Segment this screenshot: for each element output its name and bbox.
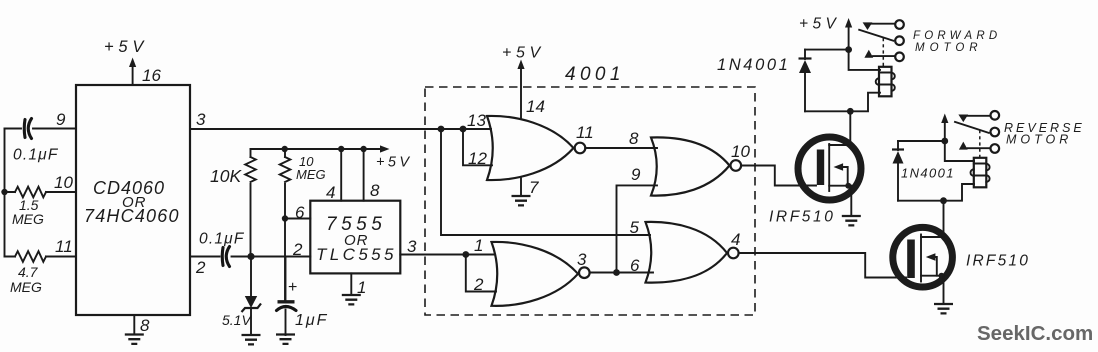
wire U1 pin 3 output (long top wire) <box>190 128 491 130</box>
svg-text:11: 11 <box>576 123 594 142</box>
svg-text:12: 12 <box>468 149 487 168</box>
wire drain node to Q2 <box>943 201 945 237</box>
wire pin 9 branch <box>617 185 658 272</box>
svg-text:1μF: 1μF <box>295 312 328 329</box>
NOR gate U3a <box>487 116 585 180</box>
wire 555 pin 4 <box>340 149 342 201</box>
relay K2 terminal 2 <box>991 128 1000 137</box>
relay K1 mechanical link (dashed) <box>882 38 884 67</box>
node junction (555 out / pins 1,2) <box>462 251 469 258</box>
relay K1 terminal 2 <box>895 36 904 45</box>
NOR gate U3d <box>646 222 739 283</box>
svg-text:4: 4 <box>731 230 740 249</box>
wire gate output 11 to pin 8 <box>585 147 657 149</box>
relay coil K1 <box>876 67 895 97</box>
wire D1 anode to drain node <box>805 93 880 112</box>
node junction (drain node rev) <box>940 197 947 204</box>
resistor 1.5 MEG (pin 10) <box>5 187 77 198</box>
wire 555 pin 6 <box>285 218 310 220</box>
svg-text:+5V: +5V <box>376 155 412 171</box>
ground (4001 pin 7) <box>512 179 531 206</box>
power +5V (4001 pin 14) <box>502 45 545 118</box>
power +5V (pin 16 of U1) <box>104 38 148 85</box>
svg-text:3: 3 <box>196 110 206 129</box>
wire gate output 4 to Q2 gate <box>739 253 906 278</box>
svg-text:MEG: MEG <box>10 279 42 295</box>
wire pin 9 row <box>5 128 77 130</box>
svg-text:4.7: 4.7 <box>18 264 39 280</box>
svg-text:MEG: MEG <box>296 167 326 182</box>
ground (Q2 source) <box>934 304 953 313</box>
svg-text:3: 3 <box>577 250 587 269</box>
capacitor 0.1uF (555 input) <box>222 247 229 267</box>
relay K2 terminal 1 <box>991 111 1000 120</box>
wire gate output 10 to Q1 gate <box>741 166 816 186</box>
svg-text:4001: 4001 <box>565 64 625 85</box>
node junction (+5V / diode / coil) <box>845 46 852 53</box>
svg-text:2: 2 <box>195 258 206 277</box>
svg-text:16: 16 <box>142 66 161 85</box>
wire top +5V rail of 555 <box>251 148 381 150</box>
node junction (pin4 top) <box>338 146 344 152</box>
wire 10MEG line down to 1uF <box>284 219 286 302</box>
svg-text:14: 14 <box>526 97 545 116</box>
svg-text:6: 6 <box>630 256 640 275</box>
relay K2 contact arm <box>955 115 991 150</box>
svg-text:+5V: +5V <box>502 45 545 62</box>
svg-text:6: 6 <box>295 203 305 222</box>
node junction (out3 / pin9 / pin6) <box>613 269 620 276</box>
svg-text:1N4001: 1N4001 <box>901 166 955 181</box>
diode D2 1N4001 <box>892 141 904 201</box>
wire rail to pin 5 <box>441 129 650 235</box>
node junction (left rail / pin 10) <box>1 189 7 195</box>
resistor 1.5 MEG label <box>12 197 44 227</box>
node junction (pin13 / pin12) <box>460 126 467 133</box>
wire left rail <box>4 129 6 257</box>
resistor 10 MEG label <box>296 154 326 182</box>
wire +5V to diode D2 <box>898 140 945 142</box>
wire drain node to Q1 <box>849 111 851 145</box>
label REVERSE MOTOR <box>1004 121 1085 147</box>
svg-text:13: 13 <box>467 111 486 130</box>
svg-text:+5V: +5V <box>799 16 840 33</box>
wire +5V to coil K1 top <box>849 50 880 70</box>
resistor 4.7 MEG label <box>10 264 42 295</box>
relay K1 contact arm <box>859 22 895 57</box>
svg-text:SeekIC.com: SeekIC.com <box>977 322 1093 345</box>
IC U3 4001 dashed outline <box>425 87 755 315</box>
svg-text:2: 2 <box>473 275 484 294</box>
ground (555 pin 1) <box>342 273 361 304</box>
node junction (pin 6 / 10MEG) <box>282 215 288 221</box>
svg-text:IRF510: IRF510 <box>769 209 835 226</box>
svg-text:9: 9 <box>56 110 66 129</box>
power +5V arrow (555 rail) <box>376 145 412 170</box>
resistor 4.7 MEG (pin 11) <box>5 251 77 262</box>
wire 555 pin 3 output <box>400 254 494 256</box>
node junction (pin8 top) <box>360 146 366 152</box>
IC U1 CD4060/74HC4060 body <box>76 85 190 315</box>
wire D2 anode to drain node <box>898 184 974 201</box>
relay K1 terminal 1 <box>895 20 904 29</box>
ground (Q1 source) <box>842 216 861 225</box>
svg-text:+: + <box>288 279 297 296</box>
svg-text:10: 10 <box>54 173 73 192</box>
ground (zener) <box>242 335 261 344</box>
svg-text:MOTOR: MOTOR <box>1006 133 1072 147</box>
svg-text:9: 9 <box>631 165 641 184</box>
relay K2 terminal 3 <box>991 144 1000 153</box>
ground (U1 pin 8) <box>125 315 144 344</box>
svg-text:1: 1 <box>357 278 366 297</box>
svg-text:MEG: MEG <box>12 211 44 227</box>
wire pin 2 branch (4001) <box>466 255 496 292</box>
node junction (drain node fwd) <box>847 108 854 115</box>
svg-text:FORWARD: FORWARD <box>913 30 1001 42</box>
svg-text:0.1μF: 0.1μF <box>199 231 245 248</box>
node junction (10MEG top) <box>282 146 288 152</box>
NOR gate U3c <box>492 242 590 306</box>
resistor 10K <box>245 149 256 257</box>
svg-text:8: 8 <box>140 316 150 335</box>
wire gate output 3 to pin 6 <box>590 272 653 274</box>
node junction (reverse +5V) <box>941 138 948 145</box>
wire +5V to diode D1 <box>805 49 849 51</box>
wire pin 12 branch <box>463 129 492 165</box>
svg-text:1: 1 <box>474 236 483 255</box>
svg-text:4: 4 <box>326 183 335 202</box>
relay K2 mechanical link (dashed) <box>979 130 981 158</box>
ground (1uF) <box>276 335 295 344</box>
svg-text:10: 10 <box>731 142 750 161</box>
IC U2 value label <box>316 214 397 264</box>
capacitor 1uF polarized <box>277 257 298 336</box>
wire 555 pin 8 <box>363 149 365 201</box>
NOR gate U3b <box>651 137 741 195</box>
MOSFET Q1 IRF510 <box>798 137 861 216</box>
svg-text:+5V: +5V <box>104 38 148 56</box>
resistor 10 MEG <box>280 149 291 219</box>
svg-text:74HC4060: 74HC4060 <box>84 206 180 226</box>
wire +5V to coil K2 top <box>945 141 974 161</box>
MOSFET Q2 IRF510 <box>893 227 953 304</box>
IC U1 value label <box>84 178 180 226</box>
power +5V (forward relay) <box>799 16 852 50</box>
svg-text:8: 8 <box>370 181 380 200</box>
svg-text:0.1μF: 0.1μF <box>13 147 59 164</box>
svg-text:8: 8 <box>629 129 639 148</box>
relay coil K2 <box>971 158 990 188</box>
relay K1 terminal 3 <box>895 53 904 62</box>
svg-text:1N4001: 1N4001 <box>717 56 790 74</box>
svg-text:7: 7 <box>529 178 539 197</box>
svg-text:TLC555: TLC555 <box>316 245 397 264</box>
svg-text:IRF510: IRF510 <box>966 253 1030 270</box>
capacitor 0.1uF (pin 9) <box>24 119 31 139</box>
zener diode 5.1V <box>242 257 262 336</box>
node junction (pin2 / 10K / zener) <box>247 253 254 260</box>
svg-text:2: 2 <box>292 240 303 259</box>
svg-text:5: 5 <box>630 218 640 237</box>
svg-text:11: 11 <box>55 237 73 256</box>
power +5V (reverse relay) <box>941 114 948 142</box>
svg-text:10K: 10K <box>210 166 242 186</box>
svg-text:5.1V: 5.1V <box>222 312 252 328</box>
node junction (pin13 / rail) <box>438 126 445 133</box>
diode D1 1N4001 <box>799 50 812 112</box>
wire U1 pin 2 row <box>190 256 310 258</box>
svg-text:3: 3 <box>407 237 417 256</box>
svg-text:MOTOR: MOTOR <box>915 42 983 54</box>
IC U2 7555/TLC555 body <box>310 201 400 274</box>
label FORWARD MOTOR <box>913 30 1001 54</box>
